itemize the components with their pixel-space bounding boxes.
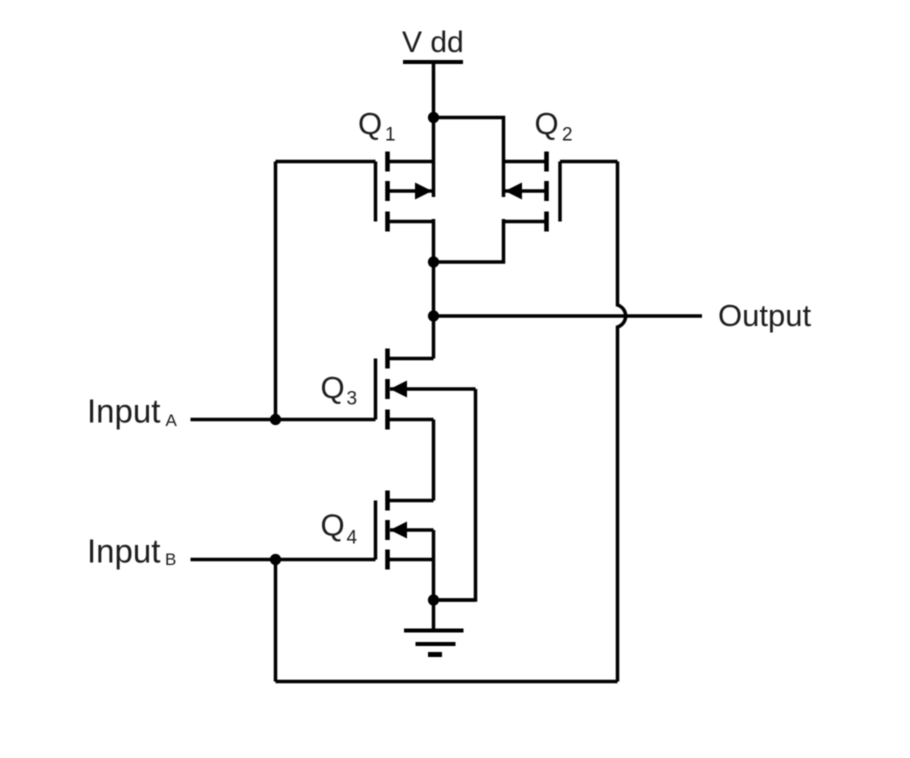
transistor Q4 source stub [388,558,434,562]
transistor Q1 body stub with arrow [388,189,434,193]
svg-text:3: 3 [347,389,358,410]
wire ground node stub right [434,598,476,602]
transistor Q4 channel dashes [385,491,390,570]
svg-text:A: A [166,411,178,430]
transistor Q1 drain stub [388,220,434,224]
wire node to Q2 source branch (right then down) [434,118,504,198]
svg-text:Q: Q [535,106,559,141]
wire left rail to Q1 gate [276,160,376,164]
transistor Q2 gate bar [558,162,562,222]
node ground junction dot [428,594,439,605]
svg-text:4: 4 [347,528,358,549]
svg-text:Input: Input [87,393,160,430]
wire left rail (InputA up to Q1 gate) [274,162,278,420]
wire InputB to Q4 gate [191,558,376,562]
transistor Q1 gate bar [374,162,378,222]
wire right rail down with hop over output [618,162,626,682]
node InputB junction dot [270,554,281,565]
wire ground stem [432,600,436,631]
wire Q2 drain branch down and left to node [434,219,504,262]
transistor Q2 body stub with arrow [504,189,547,193]
node Vdd junction dot [428,112,439,123]
svg-text:Input: Input [87,532,160,569]
transistor Q4 drain stub [388,499,434,503]
wire InputA to Q3 gate [191,418,376,422]
Vdd supply rail bar [403,60,463,64]
transistor Q4 body stub with arrow [390,528,434,532]
wire Q2 gate to right rail [560,160,618,164]
wire Q3 body down to ground node [434,389,476,600]
svg-text:V dd: V dd [402,26,464,59]
transistor Q2 source stub [504,160,547,164]
wire left rail lower (InputB down to bottom wire) [274,560,278,682]
wire Vdd stem down through node to Q1 body row [432,62,436,197]
node output junction dot [428,310,439,321]
svg-text:Q: Q [321,508,345,543]
transistor Q3 gate bar [374,359,378,420]
transistor Q2 channel dashes [544,152,549,232]
wire bottom rail [276,680,618,684]
wire output line [434,314,703,318]
transistor Q3 drain stub [388,357,434,361]
node InputA junction dot [270,414,281,425]
transistor Q4 gate bar [374,501,378,560]
wire Q3 source to Q4 drain [432,420,436,501]
transistor Q3 source stub [388,418,434,422]
svg-text:1: 1 [385,125,396,146]
transistor Q2 drain stub [504,220,547,224]
wire center column Q1/Q2 drains to output node to Q3 drain [432,219,436,359]
svg-text:Output: Output [718,298,811,333]
node PMOS drain junction dot [428,256,439,267]
transistor Q1 channel dashes [385,152,390,232]
svg-text:Q: Q [358,106,382,141]
transistor Q1 source stub [388,160,434,164]
ground symbol bars [404,629,464,633]
transistor Q3 channel dashes [385,349,390,430]
svg-text:B: B [165,550,176,569]
transistor Q3 body stub with arrow [390,387,476,391]
svg-text:2: 2 [562,125,573,146]
wire Q4 body/source down to ground node [432,530,436,600]
svg-text:Q: Q [321,370,345,405]
